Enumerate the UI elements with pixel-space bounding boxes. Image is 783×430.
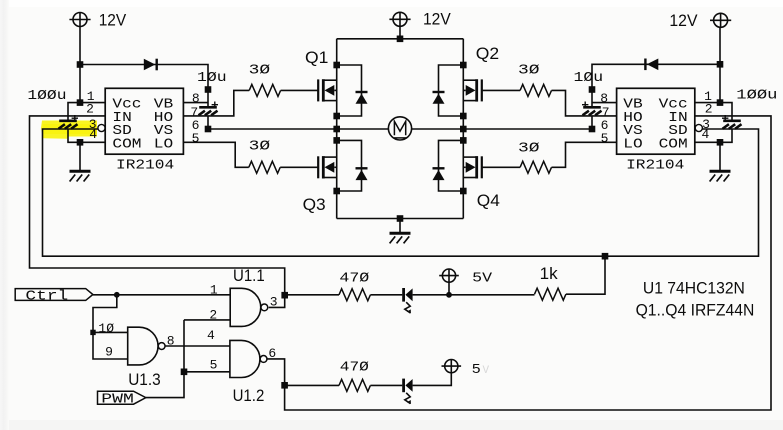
label 30 top-right: [518, 64, 540, 79]
pin label SD: [112, 124, 131, 139]
wire to Q4 gate: [482, 166, 520, 168]
svg-text:2: 2: [86, 101, 94, 116]
svg-text:IR2104: IR2104: [116, 159, 174, 174]
power symbol 5V row2: [442, 360, 462, 373]
wire COM to ground right: [719, 142, 721, 170]
wire pin8 to pin4: [165, 345, 230, 347]
pin label VS right: [623, 124, 642, 139]
svg-text:Q3: Q3: [303, 195, 326, 214]
wire ground stem: [399, 219, 401, 233]
label U1.1: [233, 266, 265, 285]
svg-text:12V: 12V: [669, 11, 698, 30]
resistor 1k: [535, 288, 566, 300]
power symbol 5V row1: [439, 269, 459, 282]
op-amp driver U2 IR2104 left box: [105, 88, 183, 154]
pin label LO: [154, 137, 173, 152]
wire LED1 to 5V node: [413, 294, 449, 296]
transistor Q1: [318, 79, 337, 101]
wire Q2 diode branch: [439, 65, 464, 116]
junction VS node right: [589, 126, 596, 133]
svg-text:Q1..Q4 IRFZ44N: Q1..Q4 IRFZ44N: [636, 301, 755, 320]
label IR2104 left: [116, 159, 174, 174]
pin number 6 U1.2: [268, 346, 276, 361]
label 30 top-left: [249, 64, 271, 79]
pin label IN right: [668, 111, 687, 126]
label 5V row2: [472, 363, 481, 378]
junction VB node right: [589, 86, 596, 93]
pin label HO right: [623, 111, 642, 126]
pin number 3 left: [89, 117, 97, 132]
junction VB node left: [205, 86, 212, 93]
motor M1: [388, 117, 411, 140]
svg-text:IR2104: IR2104: [626, 159, 684, 174]
svg-text:Q4: Q4: [477, 191, 500, 210]
wire Q4 diode branch: [439, 140, 464, 191]
pin label Vcc right: [659, 98, 688, 113]
label 10u right: [574, 71, 604, 86]
wire cap to VS right: [591, 116, 593, 129]
junction pin4 left: [77, 139, 84, 146]
diode Q3 body: [356, 168, 368, 180]
wire 100u top branch: [68, 103, 80, 120]
resistor 470 top: [339, 289, 370, 301]
svg-text:47Ø: 47Ø: [340, 361, 369, 376]
svg-text:3Ø: 3Ø: [518, 142, 540, 157]
wire left column: [336, 39, 338, 219]
highlight marker over SD pin 3: [41, 121, 97, 139]
pin number 4 U1.2: [207, 328, 215, 343]
diode D2: [645, 59, 658, 71]
wire U1.2 pin5: [184, 371, 230, 373]
label 100u right: [736, 89, 777, 104]
LED D4: [404, 379, 413, 404]
svg-text:3Ø: 3Ø: [518, 64, 540, 79]
wire pin4 stub right: [695, 141, 720, 143]
svg-text:PWM: PWM: [101, 393, 134, 408]
svg-text:5: 5: [210, 357, 218, 372]
junction U1.1 out: [281, 292, 288, 299]
wire Ctrl to U1.3: [93, 295, 128, 359]
junction bottom rail: [397, 215, 404, 222]
wire U1.2 output: [267, 359, 284, 385]
junction pin4 right: [717, 139, 724, 146]
wire pin1 stub left: [80, 102, 105, 104]
pin label LO right: [623, 137, 642, 152]
pin number 5 U1.2: [210, 357, 218, 372]
label U1.2: [233, 386, 265, 405]
diode Q2 body: [433, 92, 445, 104]
label 1k: [540, 264, 558, 283]
junction phase left: [333, 126, 340, 133]
transistor Q3: [318, 156, 337, 178]
pin label VB: [154, 98, 173, 113]
ground left: [70, 171, 91, 181]
wire U1.1 pin2: [184, 319, 230, 321]
pin number 10 U1.3: [98, 321, 114, 336]
LED D3: [404, 288, 413, 313]
pin number 2 U1.1: [209, 308, 217, 323]
wire 12V middle stem: [399, 26, 401, 39]
wire VB stub left: [183, 102, 208, 104]
wire pin4 stub left: [80, 141, 105, 143]
junction pin1 left: [77, 99, 84, 106]
label 470 bottom: [340, 361, 369, 376]
op-amp gate U1.2: [230, 340, 267, 377]
resistor 30 top-left: [249, 84, 280, 96]
wire HO right: [552, 90, 617, 116]
wire to Q2 gate: [482, 89, 520, 91]
op-amp gate U1.1: [230, 288, 268, 326]
junction Q4 source: [460, 188, 467, 195]
label 12V middle: [423, 10, 451, 29]
svg-text:U1.1: U1.1: [233, 266, 265, 285]
wire right column: [462, 39, 464, 219]
pin number 2 left: [86, 101, 94, 116]
svg-text:1Ø: 1Ø: [98, 321, 114, 336]
junction Q1 source: [333, 113, 340, 120]
wire U1.2 out to R: [285, 384, 339, 386]
junction Q4 drain: [460, 137, 467, 144]
wire 12V left down: [79, 27, 81, 103]
junction Q2 source: [460, 113, 467, 120]
ground right: [710, 171, 731, 181]
wire Q1 diode branch: [337, 65, 362, 116]
pin number 1 U1.1: [210, 282, 218, 297]
node Ctrl flag: [15, 289, 93, 301]
junction U1.2 out: [281, 382, 288, 389]
label 100u left: [27, 89, 66, 104]
svg-text:12V: 12V: [99, 10, 127, 29]
label PWM: [101, 393, 134, 408]
junction top rail: [397, 36, 404, 43]
svg-text:5: 5: [192, 131, 200, 146]
wire top rail: [337, 38, 464, 40]
svg-text:3Ø: 3Ø: [249, 64, 271, 79]
junction 12V/diode left: [77, 61, 84, 68]
wire VB to cap: [207, 90, 209, 108]
label IR2104 right: [626, 159, 684, 174]
svg-text:COM: COM: [112, 137, 141, 152]
junction VS node left: [205, 126, 212, 133]
wire 100u bottom branch: [68, 129, 80, 142]
pin label VS: [154, 124, 173, 139]
wire to Q1 gate: [281, 89, 319, 91]
junction Q2 drain: [460, 62, 467, 69]
wire pin1 stub right: [695, 102, 720, 104]
wire 12V right down: [719, 27, 721, 102]
capacitor C2 10u left: [199, 102, 219, 116]
pin label COM right: [659, 137, 688, 152]
label Q2: [476, 44, 499, 63]
pin label HO: [154, 111, 173, 126]
junction pin10 tee: [90, 330, 95, 335]
wire SD bus: [43, 129, 759, 256]
capacitor C3 100u right: [722, 115, 742, 129]
junction PWM/pin5: [181, 369, 188, 376]
wire to Q3 gate: [280, 166, 318, 168]
wire LED2 to 5V node: [413, 373, 452, 386]
svg-text:47Ø: 47Ø: [339, 271, 369, 286]
label Q1: [305, 48, 328, 67]
label U1 74HC132N: [643, 279, 745, 298]
wire bottom rail: [337, 218, 464, 220]
wire Q3 diode branch: [337, 140, 362, 191]
wire 100u top branch right: [720, 103, 732, 120]
diode D1: [144, 59, 157, 71]
resistor 30 bottom-left: [249, 161, 280, 173]
resistor 30 bottom-right: [520, 161, 551, 173]
pin number 7 left: [190, 105, 198, 120]
pin number 3 right: [702, 117, 710, 132]
svg-text:2: 2: [705, 101, 713, 116]
svg-text:U1.2: U1.2: [233, 386, 265, 405]
inversion bubble SD right: [695, 124, 702, 131]
svg-text:9: 9: [105, 345, 113, 360]
svg-text:3Ø: 3Ø: [249, 139, 271, 154]
junction Q1 drain: [333, 62, 340, 69]
inversion bubble SD left: [98, 124, 105, 131]
wire diode D1 net: [80, 65, 208, 90]
wire PWM net: [146, 320, 184, 398]
capacitor C1 100u left: [59, 115, 79, 129]
wire U1.1 out to R: [285, 294, 339, 296]
op-amp driver U3 IR2104 right box: [617, 88, 695, 154]
pin label VB right: [623, 98, 642, 113]
wire phase left: [208, 128, 388, 130]
transistor Q4: [463, 156, 482, 178]
junction 5V row1: [446, 292, 452, 298]
pin label Vcc: [112, 98, 141, 113]
power symbol 12V middle: [389, 12, 410, 26]
svg-text:U1 74HC132N: U1 74HC132N: [643, 279, 745, 298]
power symbol 12V right: [710, 13, 731, 27]
label 30 bottom-right: [518, 142, 540, 157]
wire 1k to SD bus: [566, 256, 605, 294]
pin number 8 right: [600, 91, 608, 106]
pin number 1 right: [704, 89, 712, 104]
wire LO left: [183, 142, 248, 167]
pin label COM: [112, 137, 141, 152]
pin number 7 right: [602, 105, 610, 120]
ground middle: [390, 233, 411, 243]
pin label IN: [112, 111, 131, 126]
label Q1..Q4 IRFZ44N: [636, 301, 755, 320]
label 5V row1: [472, 272, 493, 287]
svg-text:1Øu: 1Øu: [197, 71, 227, 86]
junction SD bus / 1k: [602, 253, 609, 260]
pin number 1 left: [87, 89, 95, 104]
wire 5V to 1k: [449, 294, 535, 296]
wire HO left: [183, 90, 249, 116]
pin label SD right: [668, 124, 687, 139]
wire 5V stem row1: [448, 282, 450, 295]
svg-text:COM: COM: [659, 137, 688, 152]
pin number 8 U1.3: [167, 333, 175, 348]
svg-text:5V: 5V: [472, 272, 493, 287]
op-amp gate U1.3: [128, 327, 165, 365]
svg-text:1ØØu: 1ØØu: [27, 89, 66, 104]
svg-text:U1.3: U1.3: [128, 370, 161, 389]
wire pin10: [93, 331, 128, 333]
label 12V right: [669, 11, 698, 30]
pin number 4 left: [89, 127, 97, 142]
svg-text:5: 5: [601, 131, 609, 146]
wire R to LED1: [370, 294, 402, 296]
label 470 top: [339, 271, 369, 286]
wire R to LED2: [370, 384, 402, 386]
diode Q1 body: [356, 92, 368, 104]
wire IN right net: [285, 116, 771, 410]
wire 100u bottom branch right: [720, 129, 732, 142]
wire cap to VS: [207, 116, 209, 129]
svg-text:8: 8: [600, 91, 608, 106]
label 30 bottom-left: [249, 139, 271, 154]
diode Q4 body: [433, 168, 445, 180]
wire phase right: [412, 128, 592, 130]
resistor 470 bottom: [339, 379, 370, 391]
svg-text:8: 8: [192, 91, 200, 106]
junction 12V/diode right: [717, 61, 724, 68]
wire U1.1 output: [269, 295, 285, 307]
svg-text:1ØØu: 1ØØu: [736, 89, 777, 104]
svg-text:4: 4: [207, 328, 215, 343]
junction Q3 drain: [333, 137, 340, 144]
label Ctrl: [25, 289, 68, 304]
label faint V row2: [483, 365, 490, 377]
svg-text:Ctrl: Ctrl: [25, 289, 68, 304]
resistor 30 top-right: [520, 84, 551, 96]
svg-text:12V: 12V: [423, 10, 451, 29]
svg-text:5: 5: [472, 363, 481, 378]
svg-text:1k: 1k: [540, 264, 558, 283]
svg-text:LO: LO: [623, 137, 642, 152]
node PWM flag: [98, 391, 146, 404]
svg-text:1: 1: [210, 282, 218, 297]
svg-text:Q2: Q2: [476, 44, 499, 63]
svg-text:4: 4: [701, 127, 709, 142]
transistor Q2: [463, 79, 482, 101]
pin number 9 U1.3: [105, 345, 113, 360]
wire VB to cap right: [591, 90, 593, 108]
wire IN left net: [30, 116, 285, 295]
svg-text:LO: LO: [154, 137, 173, 152]
wire Ctrl to gate: [93, 294, 230, 296]
pin number 6 right: [601, 118, 609, 133]
pin number 3 U1.1: [270, 294, 278, 309]
label 12V left: [99, 10, 127, 29]
label U1.3: [128, 370, 161, 389]
wire VB stub right: [592, 102, 617, 104]
junction Ctrl: [114, 292, 120, 298]
label Q3: [303, 195, 326, 214]
svg-text:V: V: [483, 365, 490, 377]
wire COM to ground: [79, 142, 81, 170]
label Q4: [477, 191, 500, 210]
pin number 6 left: [192, 118, 200, 133]
svg-text:1Øu: 1Øu: [574, 71, 604, 86]
pin number 2 right: [705, 101, 713, 116]
junction Q3 source: [333, 188, 340, 195]
capacitor C4 10u right: [582, 102, 602, 116]
svg-text:Q1: Q1: [305, 48, 328, 67]
pin number 5 right: [601, 131, 609, 146]
junction phase right: [460, 126, 467, 133]
pin number 8 left: [192, 91, 200, 106]
pin number 4 right: [701, 127, 709, 142]
wire LO right: [552, 142, 617, 167]
power symbol 12V left: [69, 13, 90, 27]
label 10u left: [197, 71, 227, 86]
wire diode D2 net: [592, 64, 720, 89]
junction pin1 right: [717, 99, 724, 106]
pin number 5 left: [192, 131, 200, 146]
